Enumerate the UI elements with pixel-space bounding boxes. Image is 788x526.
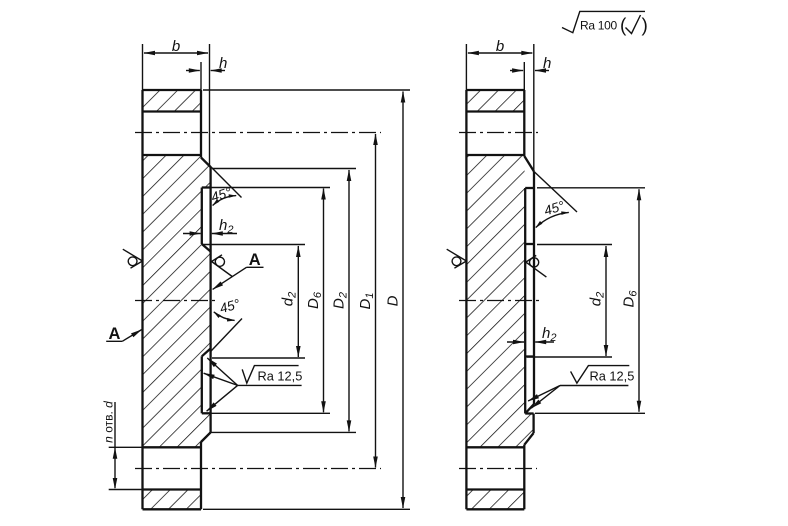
bolt hole top centerline [459,132,538,134]
dimension h [186,70,225,72]
Ra 12,5 check mark [571,366,630,384]
flange R: hatch top ring [466,90,524,112]
thin extension lines [466,44,645,413]
roughness symbol on face [212,255,233,277]
ext D top [203,89,410,91]
bolt hole top: upper line [143,110,202,112]
bolt hole bottom centerline (D1 ext) [135,468,381,470]
flange R: hatch spigot bottom wedge [525,414,534,445]
dimension h [510,70,549,72]
dimension b [144,52,208,54]
svg-text:А: А [108,325,120,343]
rim face top [200,90,202,158]
svg-text:b: b [496,38,504,55]
Ra 12,5 check mark [242,366,298,384]
base face [524,188,526,414]
dimension h2 [183,233,237,235]
svg-text:D: D [385,295,402,306]
svg-text:Ra 12,5: Ra 12,5 [590,369,635,384]
bolt hole bottom: lower line [143,488,202,490]
spigot face [533,172,535,405]
dimension D2 [348,170,350,431]
groove bottom wall [201,356,203,413]
bolt hole bottom centerline [459,468,537,470]
flange axis [135,300,216,302]
n otv arrow down [113,478,118,490]
ext D2 bottom [211,431,356,433]
ext b/h right (raised face plane) [209,44,211,167]
top edge [466,89,524,91]
svg-text:n отв. d: n отв. d [102,401,116,443]
spigot bottom edge [525,412,533,414]
svg-text:Ra 12,5: Ra 12,5 [258,369,303,384]
bottom edge [143,508,202,510]
45deg arc top [213,196,237,206]
Ra 12,5 note: leaders [204,358,302,411]
ext n otv bottom [109,489,143,491]
spigot lower face [532,414,534,434]
flange L: hatch top ring [143,90,202,112]
thin extension lines [109,44,410,509]
spigot inner edge lower [525,355,534,357]
bottom edge [466,508,524,510]
ext d2 top [203,244,305,246]
ext b left [142,44,144,90]
ext D6 top [537,187,645,189]
45deg chamfer note lower: thin diagonal [211,319,242,352]
bolt hole top: upper line [466,110,524,112]
ext D6 bottom [535,412,645,414]
svg-text:(: ( [620,16,627,37]
chamfer bottom 45deg [524,433,533,445]
raised face plane (continuous) [209,167,211,432]
ext D6 bottom [211,412,330,414]
45deg arc lower [214,312,235,321]
svg-text:А: А [249,251,261,269]
svg-text:): ) [642,16,648,37]
ext h (rim face plane) [523,62,525,90]
bolt hole bottom: lower line [466,488,524,490]
spigot inner edge upper [525,243,534,245]
spigot bottom corner chamfer [525,404,534,414]
groove top edge [202,186,211,188]
roughness symbol on face [526,255,547,277]
groove bottom edge [202,412,211,414]
bolt hole top: lower line [466,154,524,156]
45deg chamfer note top: thin diagonal [211,167,242,198]
rim face bottom [200,442,202,509]
center lines dash-dot [459,133,540,469]
flange L: hatch body [143,155,211,447]
45deg arc [536,212,569,227]
dimension D [402,92,404,509]
Ra 12,5 shelf [560,385,628,387]
flange axis [459,300,540,302]
groove top wall [201,188,203,245]
left edge [465,90,467,509]
groove top exit chamfer [202,244,211,252]
ext h (rim face plane) [200,62,202,90]
chamfer top 45deg [524,156,534,172]
roughness symbol on left edge [447,249,467,268]
bolt hole bottom: upper line [466,446,524,448]
bolt hole bottom: upper line [143,446,202,448]
flange R: hatch body [466,155,524,447]
dimension D6 [323,189,325,413]
center lines dash-dot [135,133,381,469]
dimension D6 [638,189,640,411]
dimension h2 [507,341,554,343]
ext b left [465,44,467,90]
dimension d2 [605,246,607,356]
left edge [141,90,143,509]
svg-text:Ra 100: Ra 100 [580,19,618,33]
ext b/h right (spigot plane) [533,44,535,172]
bolt hole top centerline (D1 ext) [135,132,381,134]
svg-text:b: b [172,38,180,55]
dimension d2 [297,246,299,357]
dimension D1 [375,134,377,468]
flange R: hatch bottom ring [466,490,524,510]
spigot top edge [525,187,534,189]
groove bottom entry chamfer [202,349,211,357]
rim face top [523,90,525,156]
flange L: hatch bottom ring [143,490,202,510]
svg-text:h: h [543,55,551,72]
ext D6 top [211,187,330,189]
flange R: outline [466,90,534,509]
dimension b [468,52,532,54]
ext n otv top [109,446,143,448]
bolt hole top: lower line [143,154,202,156]
ext D2 top [212,168,356,170]
45deg chamfer note: thin diagonal [534,172,577,213]
Ra 12,5 shelf [238,384,302,386]
chamfer bottom 45deg [201,432,211,442]
n otv arrow up [113,447,118,459]
flange L: outline [143,90,211,509]
Ra 12,5 note: leaders [528,366,629,409]
ext d2 bottom [527,356,612,358]
roughness symbol on left edge [123,249,143,268]
ext d2 top [537,244,612,246]
dimension n otv. d [114,402,116,488]
rim face bottom [523,445,525,510]
top edge [143,89,202,91]
ext D bottom [203,508,410,510]
ext d2 bottom [212,357,305,359]
Ra100 check mark [562,11,645,32]
svg-text:h: h [219,55,227,72]
chamfer top 45deg [201,158,211,168]
